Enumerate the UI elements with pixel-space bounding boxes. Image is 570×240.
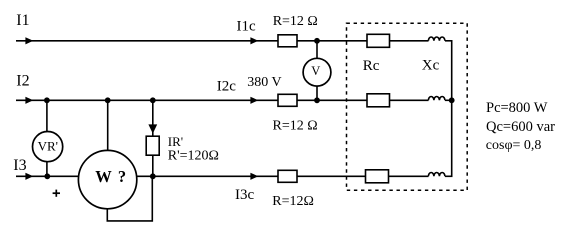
svg-text:cosφ= 0,8: cosφ= 0,8 (486, 138, 542, 153)
resistor Rc line1 (367, 34, 390, 47)
arrow line2 I2c (250, 97, 258, 104)
node junction line1-V (314, 38, 320, 44)
load dashed box (347, 23, 468, 190)
arrow line3 start (25, 173, 33, 180)
resistor R' (146, 136, 159, 155)
wire line1 main (16, 40, 278, 42)
wire line3 to load (297, 175, 366, 177)
svg-text:I2c: I2c (217, 79, 236, 95)
svg-text:Xc: Xc (422, 58, 440, 74)
svg-text:I2: I2 (16, 72, 29, 89)
wire W bottom loop (107, 176, 152, 221)
arrow line3 I3c (250, 173, 258, 180)
node junction bus-line2 (449, 97, 455, 103)
wire line1 to Rc (297, 40, 367, 42)
wire line3 Rc to coil (389, 175, 429, 177)
svg-text:R=12Ω: R=12Ω (272, 194, 314, 209)
node junction line2-V (314, 97, 320, 103)
node junction line2-W (105, 97, 111, 103)
resistor R=12 line1 (278, 35, 297, 47)
wattmeter W? (78, 150, 136, 208)
arrow line1 start (25, 37, 33, 44)
svg-text:W ?: W ? (95, 167, 127, 186)
svg-text:VR': VR' (38, 138, 58, 153)
wire IR top lead (152, 100, 154, 136)
arrow line1 I1c (250, 37, 258, 44)
svg-text:R=12 Ω: R=12 Ω (273, 14, 318, 29)
wire W top lead (107, 100, 109, 151)
voltmeter V (303, 58, 331, 86)
svg-text:Qc=600 var: Qc=600 var (486, 119, 555, 135)
svg-text:Pc=800 W: Pc=800 W (486, 100, 548, 116)
wire line2 main (16, 99, 278, 101)
wire V top lead (316, 41, 318, 58)
svg-text:I1c: I1c (237, 19, 256, 35)
svg-text:R=12 Ω: R=12 Ω (273, 118, 318, 133)
wire line2 to Rc (297, 99, 367, 101)
svg-text:I3c: I3c (235, 187, 254, 203)
inductor Xc line3 (428, 173, 445, 177)
svg-text:I3: I3 (13, 157, 26, 174)
arrow IR down (148, 124, 157, 133)
wire star bus (451, 41, 453, 177)
resistor R=12 line3 (278, 170, 297, 182)
wire VR top lead (46, 100, 48, 132)
wire line3 left (16, 175, 80, 177)
wire line3 coil to bus (445, 175, 453, 177)
resistor Rc line3 (366, 170, 389, 183)
arrow line2 start (25, 97, 33, 104)
wire line2 Rc to coil (390, 99, 429, 101)
wire VR bottom lead (46, 161, 48, 176)
inductor Xc line1 (428, 37, 445, 41)
svg-text:V: V (311, 64, 320, 78)
wire line3 right of W (136, 175, 278, 177)
voltmeter VR' (33, 132, 63, 162)
wire IR bottom lead (152, 156, 154, 177)
svg-text:Rc: Rc (363, 58, 380, 74)
resistor R=12 line2 (278, 94, 297, 106)
svg-text:IR': IR' (168, 134, 183, 149)
wire line2 coil to bus (445, 99, 453, 101)
wire line1 Rc to coil (390, 40, 429, 42)
node junction line3-VR (44, 173, 50, 179)
wire line1 coil to bus (445, 40, 453, 42)
node junction line3-IR (150, 173, 156, 179)
svg-text:I1: I1 (16, 12, 29, 29)
inductor Xc line2 (428, 97, 445, 101)
node junction line2-VR (44, 97, 50, 103)
node junction line2-IR (150, 97, 156, 103)
svg-text:R'=120Ω: R'=120Ω (168, 149, 219, 164)
label plus polarity (53, 190, 60, 197)
svg-text:380 V: 380 V (247, 75, 281, 90)
resistor Rc line2 (367, 94, 390, 107)
wire V bottom lead (316, 86, 318, 100)
